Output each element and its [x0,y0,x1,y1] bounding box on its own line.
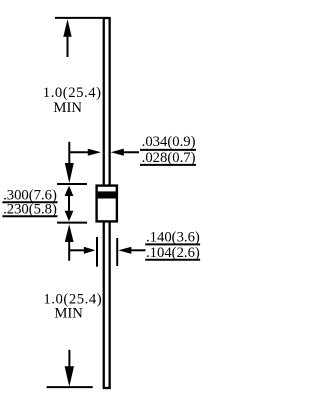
extension tick body-bottom [57,222,87,224]
dim arrow down (to body top) [68,142,70,165]
svg-text:.028(0.7): .028(0.7) [142,150,196,166]
dim arrow up (top lead length) [63,19,71,37]
lead dia arrow right [111,149,124,156]
extension tick top (lead top end) [55,17,103,19]
svg-text:MIN: MIN [54,306,83,322]
dim arrow up (below body) [65,224,74,242]
body dia extension bar left [96,237,98,267]
svg-text:MIN: MIN [53,100,82,116]
body dia arrow left [69,249,85,251]
wire lead (vertical, full length) [104,18,110,388]
svg-text:.034(0.9): .034(0.9) [142,134,196,150]
lead dia arrow left [69,151,89,153]
body length arrows (between ticks) [65,186,74,196]
diode body [97,186,117,222]
extension tick bottom (lead bottom end) [47,386,93,388]
svg-text:.230(5.8): .230(5.8) [3,202,57,218]
dim arrow down (bottom lead length) [68,350,70,368]
svg-text:1.0(25.4): 1.0(25.4) [43,85,102,101]
cathode band [98,191,116,198]
svg-text:.140(3.6): .140(3.6) [146,229,200,245]
body dia extension bar right [116,238,118,266]
svg-text:.104(2.6): .104(2.6) [146,245,200,261]
body dia arrow right [118,247,131,254]
extension tick body-top [57,183,87,185]
